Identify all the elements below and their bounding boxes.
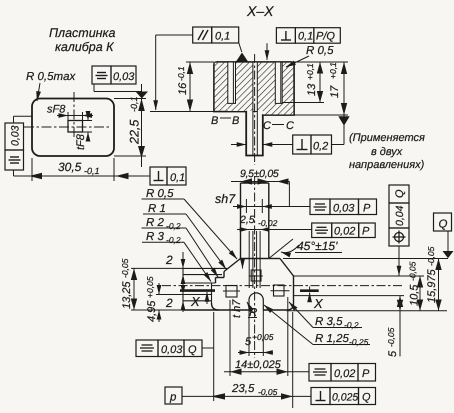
label R 3-0,2 with leader	[142, 231, 211, 282]
label tF8 vertical with dimension arrows	[75, 112, 92, 150]
svg-text:16: 16	[177, 82, 189, 95]
right slot inner line	[280, 62, 282, 103]
svg-text:R 3: R 3	[146, 231, 165, 243]
svg-text:0,03: 0,03	[113, 71, 135, 83]
svg-text:Q: Q	[362, 392, 371, 404]
svg-text:-0,05: -0,05	[426, 246, 436, 266]
left slot inner line	[232, 62, 234, 103]
svg-text:-0,2: -0,2	[166, 221, 181, 231]
svg-text:45°±15': 45°±15'	[297, 239, 338, 253]
dimension 9,5±0,05	[231, 168, 289, 207]
svg-text:10,5: 10,5	[409, 284, 421, 306]
svg-text:23,5: 23,5	[231, 383, 255, 395]
label R 0,5 max with leader	[26, 71, 76, 101]
svg-text:5: 5	[387, 350, 399, 357]
leader from left frame down to 30,5 dimension	[13, 170, 15, 176]
baseline extension left of block	[150, 111, 214, 113]
svg-text:0,02: 0,02	[334, 226, 355, 238]
svg-text:+0,05: +0,05	[145, 276, 155, 298]
svg-text:17: 17	[329, 85, 341, 98]
svg-text:Q: Q	[394, 189, 406, 198]
left slot in section	[228, 62, 236, 103]
svg-text:P: P	[362, 226, 370, 238]
label R 0,5 section with leader	[286, 45, 334, 67]
frame perpendicularity 0,025 Q bottom	[311, 388, 376, 405]
frame symmetry 0,02 P bottom	[309, 364, 376, 382]
svg-text:9,5±0,05: 9,5±0,05	[240, 168, 279, 180]
svg-text:-0,1: -0,1	[84, 166, 100, 176]
svg-text:-0,02: -0,02	[258, 218, 278, 228]
datum box p	[165, 387, 182, 404]
frame symmetry 0,03 Q	[136, 340, 202, 357]
right slot in section	[275, 62, 282, 103]
label 45 degrees	[269, 239, 342, 259]
svg-text:-0,05: -0,05	[408, 261, 418, 281]
dimension 2 lower	[165, 284, 183, 313]
datum triangle on block top	[236, 43, 248, 62]
svg-text:R 1,25: R 1,25	[315, 333, 349, 345]
svg-text:2: 2	[165, 253, 173, 267]
svg-text:R 1: R 1	[148, 203, 166, 215]
svg-text:R 3,5: R 3,5	[315, 316, 343, 328]
dimension 15,975-0,05	[426, 246, 442, 310]
svg-text:sh7: sh7	[215, 192, 236, 206]
svg-text:R 0,5max: R 0,5max	[26, 71, 76, 83]
frame perpendicularity 0,1 below plate	[150, 167, 186, 185]
frame symmetry 0,02 P	[312, 223, 376, 238]
svg-text:P: P	[362, 368, 370, 380]
svg-text:-0,25: -0,25	[349, 337, 369, 347]
baseline extension right of block	[294, 114, 348, 116]
svg-text:+0,05: +0,05	[252, 332, 274, 342]
svg-text:30,5: 30,5	[58, 160, 82, 174]
svg-text:(Применяется: (Применяется	[349, 132, 425, 144]
leader from frame to datum triangle on plate top	[94, 84, 142, 92]
leader from 0,2 frame to datum triangle on surface C	[332, 116, 350, 144]
svg-text:0,2: 0,2	[313, 141, 328, 153]
dimension 2 upper	[165, 252, 183, 287]
svg-text:X: X	[190, 294, 201, 309]
svg-text:-0,2: -0,2	[166, 235, 181, 245]
inner slot lines in column	[249, 231, 260, 288]
svg-text:Пластинка: Пластинка	[49, 26, 115, 40]
dimension 22,5-0,1	[114, 96, 146, 167]
svg-text:t h7: t h7	[231, 299, 243, 318]
svg-text:5: 5	[245, 336, 252, 348]
hatching between slit and right slot	[257, 63, 275, 111]
dimension 13+0,1	[282, 62, 324, 103]
svg-text:+0,1: +0,1	[305, 63, 315, 80]
svg-text:sF8: sF8	[47, 104, 66, 116]
frame parallelism 0,1	[193, 27, 239, 43]
hatching lower center left	[228, 104, 246, 111]
svg-text:p: p	[169, 392, 177, 404]
plate outline	[32, 99, 114, 157]
svg-text:22,5: 22,5	[128, 120, 142, 145]
svg-text:P: P	[363, 203, 371, 215]
leader from left frame up to plate	[14, 116, 33, 123]
svg-text:0,1: 0,1	[215, 31, 230, 43]
keyhole slot	[249, 293, 263, 310]
svg-text:калибра К: калибра К	[55, 40, 114, 54]
right small square	[274, 285, 285, 296]
svg-text:-0,2: -0,2	[344, 320, 359, 330]
perpendicularity 0,2 arrows at stem	[231, 144, 293, 146]
part right side profile	[269, 259, 294, 311]
dimension 5-0,05	[386, 296, 403, 357]
svg-text:15,975: 15,975	[426, 268, 438, 303]
part left stepped profile	[183, 268, 227, 310]
hatching left of left slot	[215, 63, 228, 111]
dimension 4,95+0,05	[145, 276, 212, 322]
surface labels C-C	[263, 120, 294, 132]
label R 0,5 under frame with leader to lower figure	[142, 188, 238, 259]
label R 1,25-0,25 with leader	[264, 305, 370, 347]
label sF8 with dimension arrows	[47, 104, 93, 121]
dimension 13,25-0,05	[120, 258, 183, 310]
label R 3,5-0,2 with leader	[289, 302, 362, 330]
arm extension line right	[294, 275, 425, 277]
svg-text:X: X	[313, 296, 324, 311]
surface labels B-B	[211, 115, 239, 127]
note text Применяется в двух направлениях	[349, 132, 425, 171]
svg-text:4,95: 4,95	[146, 300, 158, 322]
svg-text:0,025: 0,025	[332, 392, 358, 404]
lower figure column	[241, 183, 269, 259]
dimension 5+0,05 bottom	[238, 332, 274, 353]
frame perpendicularity 0,2	[293, 135, 332, 154]
svg-text:0,03: 0,03	[10, 125, 22, 146]
svg-text:+0,1: +0,1	[328, 62, 338, 79]
arm bottom extension line right	[294, 295, 405, 297]
label R with leader to keyhole	[247, 302, 257, 319]
plate vertical centerline	[73, 92, 75, 138]
lower part vertical centerline	[254, 176, 256, 358]
svg-text:-0,05: -0,05	[386, 327, 396, 347]
stem centerline	[254, 54, 256, 165]
part bottom edge	[183, 309, 287, 311]
svg-text:0,1: 0,1	[170, 172, 185, 184]
plate horizontal centerline	[24, 126, 110, 128]
svg-text:tF8: tF8	[75, 133, 87, 150]
hatching lower center right	[263, 104, 294, 115]
column base edge	[241, 258, 269, 260]
svg-text:-0,1: -0,1	[176, 66, 186, 81]
hatching between left slot and slit	[236, 63, 253, 111]
dimension 23,5-0,05	[182, 312, 311, 408]
svg-text:-0,05: -0,05	[258, 387, 278, 397]
keyhole extension lines down	[249, 310, 263, 356]
leader from P/Q frame down to block	[267, 42, 277, 44]
svg-text:-0,05: -0,05	[120, 258, 130, 278]
leader from position frame down	[398, 246, 400, 276]
leader from parallelism frame to left baseline	[156, 35, 193, 110]
top small square	[251, 270, 261, 281]
svg-text:направлениях): направлениях)	[349, 159, 425, 171]
svg-text:0,03: 0,03	[161, 344, 183, 356]
section mark X right	[300, 287, 324, 312]
svg-text:Q: Q	[439, 219, 448, 231]
label R 2-0,2 with leader	[142, 217, 219, 277]
slot in plate	[68, 121, 83, 133]
section block outline	[214, 62, 294, 156]
right chamfer of part	[280, 259, 294, 277]
dimension 2,5-0,02	[237, 214, 312, 230]
svg-text:0,02: 0,02	[334, 368, 355, 380]
svg-text:Q: Q	[188, 344, 197, 356]
left chamfer of part	[224, 259, 241, 272]
dimension 10,5-0,05	[408, 261, 424, 310]
svg-text:в двух: в двух	[371, 146, 403, 158]
center slit	[253, 62, 257, 112]
svg-text:X–X: X–X	[246, 3, 274, 19]
leader from 0,03 Q frame to extension	[202, 347, 214, 349]
bottom extension line right	[287, 310, 448, 312]
dimension 14±0,025	[224, 297, 309, 376]
frame symmetry 0,03 left of plate	[5, 123, 24, 170]
dimension 30,5-0,1	[14, 158, 151, 181]
vertical frame position 0,04 Q	[389, 185, 409, 246]
svg-text:P/Q: P/Q	[316, 31, 335, 43]
svg-text:0,04: 0,04	[394, 205, 406, 226]
svg-text:B: B	[211, 115, 218, 127]
svg-text:14±0,025: 14±0,025	[235, 359, 282, 371]
svg-text:R 2: R 2	[146, 217, 165, 229]
svg-text:0,1: 0,1	[298, 31, 313, 43]
svg-text:13,25: 13,25	[121, 281, 133, 309]
dimension 17+0,1	[294, 62, 348, 145]
svg-text:B: B	[232, 115, 239, 127]
svg-text:2: 2	[165, 296, 173, 310]
lower part horizontal centerline	[162, 285, 402, 287]
section mark X left	[180, 291, 215, 309]
svg-text:2,5: 2,5	[239, 214, 255, 226]
title Пластинка калибра К	[49, 26, 115, 54]
small arrow at ledge	[242, 261, 244, 269]
frame perpendicularity 0,1 P/Q	[276, 28, 340, 44]
svg-text:13: 13	[306, 83, 318, 96]
svg-text:0,03: 0,03	[333, 203, 355, 215]
dimension s h7 slot width	[233, 199, 310, 213]
hatching right of right slot	[282, 63, 293, 115]
frame symmetry 0,03 P	[310, 199, 377, 215]
svg-text:R 0,5: R 0,5	[146, 188, 174, 200]
label R 1 with leader	[143, 203, 226, 269]
datum box Q right	[434, 213, 454, 258]
frame symmetry 0,03 above plate	[92, 66, 136, 84]
datum triangle on plate top extension	[136, 92, 149, 99]
ledge extension line right	[283, 258, 448, 260]
svg-text:C: C	[286, 120, 294, 132]
svg-text:C: C	[263, 120, 271, 132]
svg-text:R 0,5: R 0,5	[306, 45, 334, 57]
dimension 16-0,1	[176, 62, 214, 112]
left small square	[226, 286, 237, 298]
